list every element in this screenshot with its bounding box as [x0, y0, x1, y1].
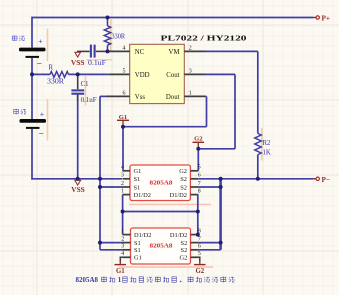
battery BT2	[20, 119, 47, 123]
wire lower S2 pin7 branch	[199, 242, 221, 244]
wire R to C1 junction to VDD pin	[69, 73, 109, 75]
svg-text:G1: G1	[119, 114, 127, 121]
node VSS rail / IC Vss	[98, 177, 102, 181]
svg-text:8205A8: 8205A8	[76, 276, 99, 284]
svg-text:S1: S1	[134, 184, 141, 191]
wire upper S1 row	[100, 186, 123, 188]
svg-text:2: 2	[121, 236, 124, 242]
node B+ / R3	[106, 16, 110, 20]
pin 6 S2	[190, 178, 198, 180]
svg-text:S1: S1	[134, 247, 141, 254]
op-amp U1 PL7022 / HY2120	[130, 44, 185, 103]
svg-text:3: 3	[121, 173, 124, 179]
port P+	[313, 17, 316, 19]
svg-text:G1: G1	[134, 255, 142, 262]
wire D1/D2 left vertical	[122, 195, 124, 235]
node VSS rail / C1	[76, 177, 80, 181]
svg-text:VM: VM	[169, 49, 180, 56]
svg-text:S1: S1	[134, 176, 141, 183]
node VDD/R/C1	[76, 72, 80, 76]
wire lower S1 row	[100, 242, 124, 244]
svg-text:6: 6	[123, 90, 126, 96]
resistor R3 330R (top)	[107, 18, 109, 26]
wire G1 node down to upper chip G1 pin	[122, 127, 124, 171]
node S2 upper pin7	[219, 185, 223, 189]
pin 2 S1	[123, 242, 131, 244]
node G2 port junction	[196, 147, 200, 151]
pin 1 D1/D2	[123, 234, 131, 236]
svg-text:4: 4	[121, 251, 124, 257]
wire R2 bottom to P- wire	[257, 155, 259, 179]
svg-text:6: 6	[198, 244, 201, 250]
svg-text:Vss: Vss	[135, 94, 146, 101]
pin 7 S2	[191, 242, 199, 244]
svg-text:VSS: VSS	[71, 59, 85, 67]
pin 1 D1/D2	[123, 194, 131, 196]
pin 3 S1	[123, 249, 131, 251]
power port VSS (on B- rail)	[75, 180, 81, 185]
wire B- rail	[31, 178, 122, 180]
svg-text:0.1uF: 0.1uF	[81, 97, 97, 104]
resistor R2 1K	[255, 134, 261, 155]
svg-text:1: 1	[121, 188, 124, 194]
node D1/D2 right	[196, 210, 200, 214]
svg-text:D1/D2: D1/D2	[134, 192, 151, 199]
wire D1/D2 horizontal link	[123, 211, 198, 213]
pin 6 Vss	[107, 95, 130, 97]
svg-text:4: 4	[121, 165, 124, 171]
pin 8 D1/D2	[190, 194, 198, 196]
svg-text:G2: G2	[179, 255, 187, 262]
pin 2 VM	[184, 50, 205, 52]
pin 5 VDD	[109, 73, 130, 75]
svg-text:1K: 1K	[263, 150, 271, 157]
svg-text:P+: P+	[322, 15, 331, 23]
wire Cout to G2 node	[206, 73, 236, 75]
svg-text:7: 7	[198, 181, 201, 187]
svg-text:G2: G2	[194, 135, 203, 142]
svg-text:S1: S1	[134, 240, 141, 247]
svg-text:3: 3	[189, 68, 192, 74]
svg-text:8205A8: 8205A8	[150, 243, 174, 250]
pin 1 Dout	[184, 95, 206, 97]
svg-text:3: 3	[121, 244, 124, 250]
svg-text:8: 8	[198, 188, 201, 194]
svg-text:5: 5	[123, 68, 126, 74]
pin 7 S2	[190, 186, 198, 188]
svg-text:2: 2	[189, 45, 192, 51]
pin 6 S2	[191, 249, 199, 251]
svg-text:G1: G1	[134, 168, 142, 175]
wire B+ rail from battery to P+	[32, 17, 313, 19]
svg-text:PL7022 / HY2120: PL7022 / HY2120	[161, 34, 247, 43]
pin 5 G2	[191, 256, 199, 258]
resistor R 330R (horizontal)	[50, 72, 69, 78]
wire upper S2 pin7 branch	[198, 186, 220, 188]
svg-text:Cout: Cout	[166, 72, 179, 79]
wire G2 node down to upper chip G2 pin	[197, 149, 199, 171]
node D1/D2 lower pin8	[196, 233, 200, 237]
svg-text:330R: 330R	[112, 34, 126, 41]
wire battery bottom to B- rail	[31, 129, 33, 180]
svg-text:C1: C1	[81, 81, 89, 88]
node S1 upper branch	[98, 185, 102, 189]
power port G2 (net G2, Cout node)	[193, 141, 205, 143]
wire S2 drop to lower chip	[219, 179, 222, 250]
pin 4 G1	[123, 170, 131, 172]
svg-text:VDD: VDD	[135, 72, 150, 79]
svg-text:R: R	[49, 65, 54, 72]
svg-text:330R: 330R	[47, 79, 65, 86]
pin 3 S1	[123, 178, 131, 180]
wire Dout to G1 node	[205, 95, 208, 97]
svg-text:P−: P−	[322, 176, 331, 184]
svg-text:VSS: VSS	[71, 186, 85, 194]
svg-text:G2: G2	[179, 168, 187, 175]
wire Vss pin down to rails and S1 pins	[100, 95, 107, 97]
svg-text:+: +	[40, 109, 44, 118]
svg-text:1: 1	[189, 90, 192, 96]
wire C1 bottom to B- rail	[77, 95, 79, 179]
power port VSS (top)	[75, 52, 81, 57]
svg-text:0.1uF: 0.1uF	[88, 60, 106, 67]
battery BT1	[19, 48, 46, 52]
node P- / R2	[256, 177, 260, 181]
node NC/R3/C2	[106, 49, 110, 53]
svg-text:5: 5	[198, 165, 201, 171]
pin 4 NC	[109, 50, 130, 52]
wire VM pin to R2	[206, 50, 258, 52]
transistor U3 8205A8 (lower)	[131, 228, 191, 264]
svg-text:R2: R2	[263, 140, 272, 147]
svg-text:S2: S2	[180, 176, 187, 183]
svg-text:S2: S2	[181, 247, 188, 254]
wire VDD net battery mid to R	[32, 73, 50, 75]
pin 2 S1	[123, 186, 131, 188]
svg-text:D1/D2: D1/D2	[134, 232, 151, 239]
node G1 port junction	[121, 125, 125, 129]
svg-text:Dout: Dout	[166, 94, 180, 101]
wire D1/D2 right vertical	[197, 195, 199, 235]
node S2 lower pin7	[219, 241, 223, 245]
svg-text:D1/D2: D1/D2	[170, 192, 187, 199]
svg-text:S2: S2	[180, 184, 187, 191]
node P- / S2 drop	[219, 177, 223, 181]
svg-text:S2: S2	[181, 240, 188, 247]
svg-text:5: 5	[198, 251, 201, 257]
port P-	[313, 178, 316, 180]
pin 8 D1/D2	[191, 234, 199, 236]
svg-text:1: 1	[118, 276, 122, 284]
svg-text:NC: NC	[135, 49, 145, 56]
svg-text:4: 4	[123, 45, 126, 51]
transistor U2 8205A8 (upper)	[130, 165, 190, 201]
svg-text:6: 6	[198, 173, 201, 179]
wire battery stack middle	[31, 58, 33, 119]
node S1 lower branch	[98, 241, 102, 245]
pin 5 G2	[190, 170, 198, 172]
power port G2 (below lower chip)	[196, 257, 200, 261]
svg-text:+: +	[38, 36, 42, 45]
svg-text:D1/D2: D1/D2	[170, 232, 187, 239]
power port G1 (below lower chip)	[120, 257, 125, 261]
pin 4 G1	[123, 256, 131, 258]
svg-text:2: 2	[121, 181, 124, 187]
svg-text:G1: G1	[116, 268, 125, 275]
capacitor C2 0.1uF (top, horizontal)	[77, 50, 90, 52]
power port G1 (net G1 above upper chip)	[117, 119, 129, 121]
capacitor C1 0.1uF	[77, 74, 79, 89]
svg-text:1: 1	[121, 228, 124, 234]
pin 3 Cout	[184, 73, 205, 75]
node battery mid / R	[30, 72, 34, 76]
svg-text:8205A8: 8205A8	[150, 179, 174, 186]
svg-text:−: −	[39, 129, 44, 139]
svg-text:G2: G2	[195, 268, 204, 275]
svg-text:7: 7	[198, 236, 201, 242]
svg-text:−: −	[37, 58, 42, 68]
node D1/D2 left	[121, 210, 125, 214]
wire P- / S2 net	[198, 178, 313, 180]
